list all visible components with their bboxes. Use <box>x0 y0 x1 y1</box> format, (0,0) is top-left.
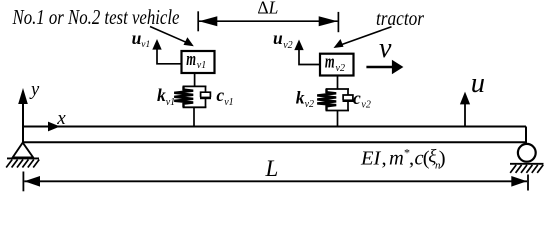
spring k_v2 (zigzag coil) <box>317 89 336 111</box>
mass block m_v1 <box>182 51 215 73</box>
wire: suspension 2 to beam <box>337 111 339 127</box>
svg-text:No.1 or No.2 test vehicle: No.1 or No.2 test vehicle <box>12 5 180 29</box>
suspension 1 bottom bar <box>183 106 207 108</box>
damper c_v2 (dashpot) <box>343 89 354 111</box>
spring k_v1 (zigzag coil) <box>174 86 193 107</box>
suspension 2 top bar <box>326 88 349 90</box>
svg-text:c: c <box>216 85 224 105</box>
left support ground line <box>7 157 39 159</box>
suspension 1 top bar <box>183 85 207 87</box>
svg-text:m: m <box>186 49 196 69</box>
svg-text:v1: v1 <box>197 60 206 71</box>
svg-text:u: u <box>273 28 283 48</box>
wire: mass m_v2 to suspension <box>337 76 339 90</box>
svg-text:L: L <box>265 156 279 181</box>
svg-text:): ) <box>439 148 446 170</box>
dimension L: line, end ticks, arrowheads <box>23 172 528 192</box>
beam right edge <box>525 127 527 144</box>
svg-text:v2: v2 <box>336 63 345 74</box>
svg-text:y: y <box>29 80 40 100</box>
svg-text:v1: v1 <box>224 97 233 108</box>
velocity v arrow <box>366 60 403 74</box>
dimension DeltaL: line, end ticks, arrowheads <box>198 11 338 32</box>
svg-text:v1: v1 <box>141 40 150 50</box>
displacement u_v2 arrow <box>294 40 320 65</box>
leader arrow to vehicle 1 mass <box>150 27 194 47</box>
left pin support triangle <box>13 143 34 158</box>
mass block m_v2 <box>320 54 354 76</box>
svg-text:ΔL: ΔL <box>257 0 278 18</box>
damper c_v1 (dashpot) <box>200 86 211 107</box>
svg-text:v1: v1 <box>166 97 175 108</box>
svg-text:v2: v2 <box>361 99 370 110</box>
leader arrow to vehicle 2 mass <box>334 27 392 48</box>
x axis arrowhead on beam <box>48 122 60 132</box>
svg-text:k: k <box>296 87 305 107</box>
svg-text:u: u <box>132 28 142 48</box>
beam deflection u arrow <box>460 92 470 127</box>
wire: suspension 1 to beam <box>193 107 195 126</box>
svg-text:tractor: tractor <box>376 9 424 30</box>
beam bottom line <box>23 141 526 143</box>
left support hatching <box>6 160 39 168</box>
beam top line <box>23 126 526 128</box>
right roller support circle <box>518 144 536 162</box>
svg-text:EI: EI <box>360 148 382 170</box>
wire: mass m_v1 to suspension <box>194 73 196 86</box>
displacement u_v1 arrow (L-shaped with up arrowhead) <box>152 39 181 64</box>
svg-text:m: m <box>389 148 404 170</box>
svg-text:,: , <box>409 148 414 170</box>
svg-text:v: v <box>379 33 392 64</box>
svg-text:c: c <box>353 88 361 108</box>
svg-text:u: u <box>471 68 485 99</box>
svg-text:m: m <box>325 52 335 72</box>
svg-text:v2: v2 <box>283 40 292 51</box>
svg-text:,: , <box>382 148 387 170</box>
suspension 2 bottom bar <box>326 110 349 112</box>
svg-text:k: k <box>157 85 166 105</box>
right support hatching <box>510 165 543 173</box>
y axis <box>18 88 28 143</box>
right support ground line <box>510 163 544 165</box>
svg-text:v2: v2 <box>305 99 314 110</box>
